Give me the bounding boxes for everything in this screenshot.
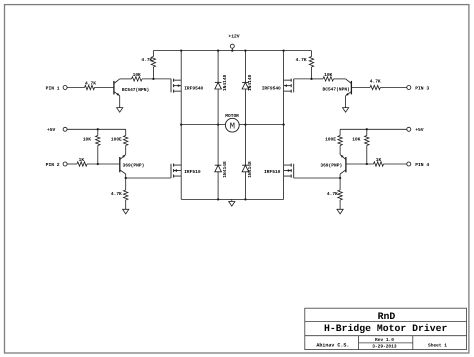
wire PIN1 to R1 — [67, 87, 84, 89]
svg-text:IRF510: IRF510 — [184, 169, 201, 175]
svg-text:PIN 4: PIN 4 — [415, 162, 429, 168]
junction Q2 collector node — [125, 177, 127, 179]
junction D2 bottom — [244, 123, 246, 125]
wire Q1 emitter — [119, 96, 121, 108]
wire left bridge vertical — [180, 51, 182, 80]
svg-text:1N4148: 1N4148 — [222, 161, 228, 178]
svg-text:1K: 1K — [376, 158, 382, 163]
wire bottom rail — [181, 198, 283, 200]
svg-text:4.7K: 4.7K — [296, 58, 307, 63]
wire Q2 collector down — [125, 174, 127, 178]
mosfet M4 IRF510 bottom-right — [264, 164, 294, 179]
junction R4 bottom — [97, 163, 99, 165]
svg-text:369(PNP): 369(PNP) — [123, 163, 145, 169]
svg-text:H-Bridge Motor Driver: H-Bridge Motor Driver — [324, 323, 448, 334]
title block — [305, 308, 467, 349]
resistor R5 100E — [111, 129, 128, 154]
svg-text:PIN 1: PIN 1 — [46, 85, 60, 91]
svg-text:1N4148: 1N4148 — [247, 74, 253, 91]
svg-text:4.7K: 4.7K — [370, 79, 381, 84]
ground below R14 — [337, 209, 343, 214]
svg-text:1N4148: 1N4148 — [247, 161, 253, 178]
junction M2 source at rail — [282, 49, 284, 51]
svg-text:3-29-2013: 3-29-2013 — [372, 344, 397, 350]
mosfet M2 IRF9540 top-right — [262, 79, 294, 93]
svg-text:4.7K: 4.7K — [327, 192, 338, 197]
ground center bottom — [229, 199, 235, 206]
svg-text:Rev 1.0: Rev 1.0 — [375, 337, 394, 343]
junction +12V stub at rail — [231, 49, 233, 51]
diode D2 1N4148 upper-right — [242, 51, 253, 125]
svg-text:369(PNP): 369(PNP) — [320, 163, 342, 169]
svg-text:10K: 10K — [133, 72, 141, 78]
wire Q4 collector down — [339, 174, 341, 178]
junction D4 bottom — [244, 198, 246, 200]
wire PIN2 to R6 — [67, 163, 77, 165]
resistor R13 1K — [374, 158, 384, 166]
svg-text:IRF9540: IRF9540 — [262, 86, 281, 92]
junction D3 bottom — [217, 198, 219, 200]
resistor R4 10K — [83, 129, 100, 164]
node PIN 1 terminal — [46, 85, 67, 91]
junction left motor node — [180, 123, 182, 125]
wire R13 to PIN4 — [384, 163, 407, 165]
resistor R3 4.7K pull-up — [141, 51, 155, 79]
junction D1 bottom — [217, 123, 219, 125]
svg-text:4.7K: 4.7K — [141, 58, 152, 63]
wire R10 to PIN3 — [380, 87, 407, 89]
resistor R7 4.7K pull-down — [111, 178, 128, 209]
junction Q4 collector node — [339, 177, 341, 179]
svg-text:4.7K: 4.7K — [85, 81, 96, 86]
wire motor right — [239, 124, 283, 126]
node PIN 4 terminal — [407, 162, 430, 168]
junction D2 top — [244, 49, 246, 51]
svg-text:IRF510: IRF510 — [264, 169, 281, 175]
svg-text:10K: 10K — [83, 136, 91, 142]
diode D4 1N4148 lower-right — [242, 125, 253, 200]
motor M — [225, 113, 239, 132]
svg-text:BC547(NPN): BC547(NPN) — [122, 87, 149, 93]
resistor R10 4.7K — [370, 79, 381, 89]
junction R12 bottom — [366, 163, 368, 165]
wire Q3 base to R10 — [351, 87, 370, 89]
mosfet M3 IRF510 bottom-left — [171, 164, 201, 179]
svg-text:+12V: +12V — [228, 33, 239, 39]
junction D1 top — [217, 49, 219, 51]
svg-text:10K: 10K — [352, 136, 360, 142]
junction R8/R9/M2 gate — [310, 78, 312, 80]
svg-text:+5V: +5V — [47, 127, 56, 133]
svg-text:PIN 2: PIN 2 — [46, 162, 60, 168]
transistor Q1 BC547(NPN) — [114, 79, 149, 96]
transistor Q3 BC547(NPN) — [323, 79, 352, 96]
wire Q4 collector to M4 gate — [294, 177, 340, 179]
wire Q3 emitter — [345, 96, 347, 108]
resistor R14 4.7K pull-down right — [327, 178, 342, 209]
resistor R11 100E — [325, 129, 342, 154]
ground below Q3 — [343, 108, 349, 113]
svg-text:1N4148: 1N4148 — [222, 74, 228, 91]
junction right motor node — [282, 123, 284, 125]
wire R1 to Q1 base — [95, 87, 114, 89]
power +5V terminal right — [407, 127, 424, 133]
junction node R2/R3/M1 gate — [152, 78, 154, 80]
node PIN 2 terminal — [46, 162, 67, 168]
node PIN 3 terminal — [407, 85, 430, 91]
svg-text:1K: 1K — [79, 158, 85, 163]
junction M1 source at rail — [180, 49, 182, 51]
svg-text:IRF9540: IRF9540 — [184, 86, 203, 92]
ground below Q1 — [117, 108, 123, 113]
diode D1 1N4148 upper-left — [215, 51, 228, 125]
svg-text:10K: 10K — [324, 72, 332, 78]
power +5V terminal left — [47, 127, 67, 133]
wire node to R9 — [312, 78, 324, 80]
wire +5V rail left — [67, 128, 126, 130]
svg-text:MOTOR: MOTOR — [225, 113, 239, 119]
junction R12 top — [366, 128, 368, 130]
svg-text:Sheet 1: Sheet 1 — [428, 342, 447, 348]
ground below R7 — [123, 209, 129, 214]
wire +5V rail right — [340, 128, 407, 130]
wire Q2 collector to M3 gate — [126, 177, 171, 179]
power +12V terminal — [228, 33, 239, 50]
wire Q1 collector to R2 — [120, 78, 132, 80]
transistor Q2 369(PNP) — [120, 155, 145, 174]
svg-text:RnD: RnD — [378, 311, 396, 322]
svg-text:BC547(NPN): BC547(NPN) — [323, 87, 350, 93]
resistor R6 1K — [77, 158, 87, 166]
wire R2 to gate node — [142, 78, 171, 80]
svg-text:100E: 100E — [111, 136, 122, 142]
wire right bridge vertical — [283, 51, 285, 200]
svg-text:100E: 100E — [325, 136, 336, 142]
junction R4 top — [97, 128, 99, 130]
svg-text:Abinav C.S.: Abinav C.S. — [316, 343, 349, 349]
svg-text:+5V: +5V — [415, 127, 424, 133]
resistor R1 4.7K — [85, 81, 97, 89]
svg-text:4.7K: 4.7K — [111, 192, 122, 197]
resistor R2 10K — [132, 72, 143, 81]
svg-text:PIN 3: PIN 3 — [415, 85, 429, 91]
wire motor left — [181, 124, 225, 126]
mosfet M1 IRF9540 top-left — [171, 79, 204, 93]
resistor R9 10K — [323, 72, 334, 81]
svg-text:M: M — [230, 121, 235, 131]
wire Q4 base to R13 — [346, 163, 374, 165]
resistor R12 10K right — [352, 129, 369, 164]
resistor R8 4.7K pull-up right — [296, 51, 314, 79]
wire top +12V rail — [153, 50, 311, 52]
wire R9 to Q3 collector — [334, 78, 346, 80]
wire R6 to Q2 base — [87, 163, 120, 165]
diode D3 1N4148 lower-left — [215, 125, 228, 200]
wire node to M2 gate — [294, 78, 312, 80]
transistor Q4 369(PNP) — [320, 155, 346, 174]
